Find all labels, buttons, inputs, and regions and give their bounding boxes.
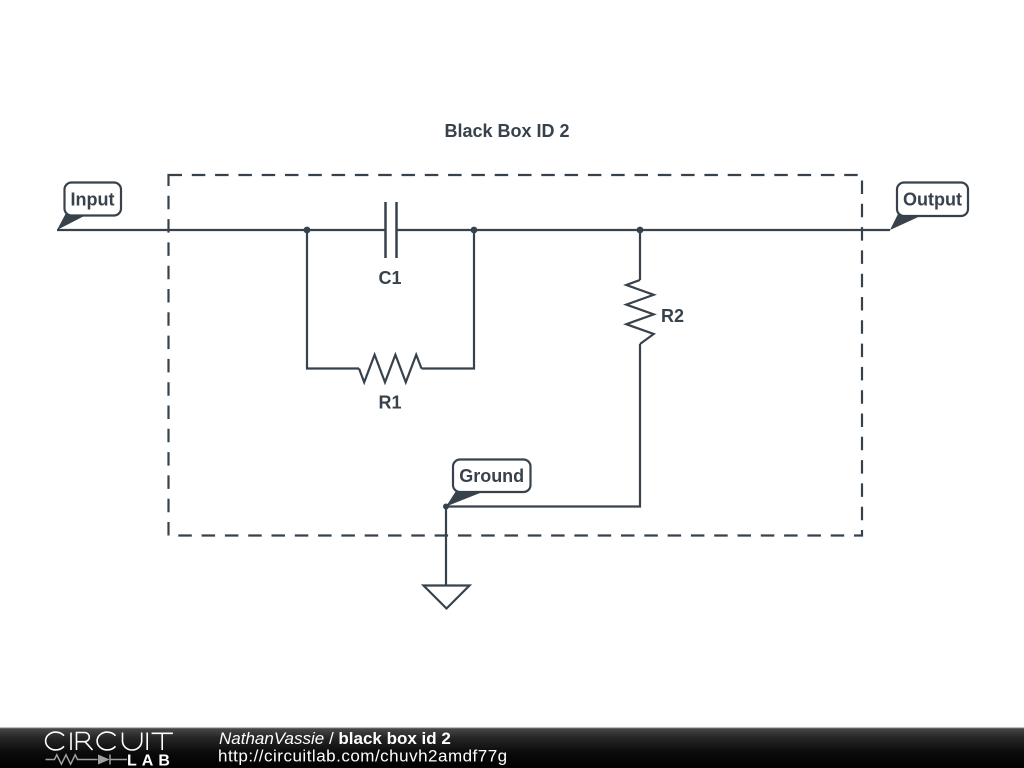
svg-text:LAB: LAB bbox=[127, 752, 175, 768]
flag Output bbox=[890, 183, 968, 231]
CircuitLab logo word CIRCUIT bbox=[46, 732, 173, 750]
svg-text:R1: R1 bbox=[378, 393, 401, 413]
CircuitLab logo resistor-diode glyph bbox=[46, 755, 128, 765]
node D junction dot (ground node) bbox=[443, 504, 449, 510]
node C junction dot (top of R2) bbox=[637, 227, 644, 234]
resistor R1 bbox=[359, 355, 422, 383]
flag Ground bbox=[446, 460, 531, 507]
node A junction dot (left of C1) bbox=[304, 227, 311, 234]
svg-text:Input: Input bbox=[71, 190, 115, 210]
svg-text:http://circuitlab.com/chuvh2am: http://circuitlab.com/chuvh2amdf77g bbox=[218, 747, 508, 766]
node B junction dot (right of C1) bbox=[471, 227, 478, 234]
wire: C1 right plate to output tip bbox=[397, 229, 891, 231]
flag Input bbox=[57, 183, 121, 231]
wire: R1 left leg bbox=[307, 230, 359, 369]
svg-text:Ground: Ground bbox=[459, 466, 524, 486]
wire: ground node down to ground symbol bbox=[445, 507, 447, 586]
footer bar bbox=[0, 728, 1024, 768]
svg-text:R2: R2 bbox=[661, 306, 684, 326]
black box annotation (dashed rectangle) bbox=[169, 175, 863, 536]
wire: node C down to R2 bbox=[639, 230, 641, 280]
svg-text:C1: C1 bbox=[378, 268, 401, 288]
svg-text:Black Box ID 2: Black Box ID 2 bbox=[444, 121, 569, 141]
wire: R2 bottom to ground node bbox=[446, 344, 640, 507]
wire: input tip to C1 left plate bbox=[57, 229, 386, 231]
resistor R2 bbox=[626, 280, 653, 344]
capacitor C1 bbox=[386, 202, 397, 258]
ground bbox=[424, 586, 470, 609]
wire: R1 right leg bbox=[422, 230, 475, 369]
svg-text:Output: Output bbox=[903, 190, 962, 210]
footer bar top highlight bbox=[0, 728, 1024, 729]
svg-text:NathanVassie / black box id 2: NathanVassie / black box id 2 bbox=[219, 729, 451, 748]
